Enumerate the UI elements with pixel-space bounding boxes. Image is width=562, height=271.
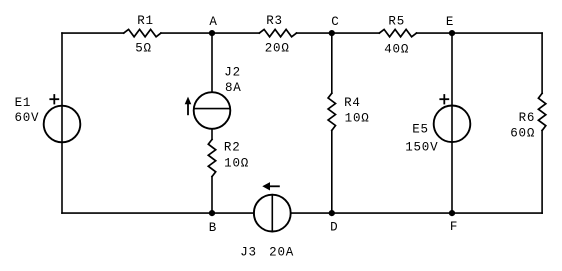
wire top rail right segment xyxy=(417,32,543,34)
node A xyxy=(209,30,215,36)
svg-text:F: F xyxy=(450,220,458,234)
svg-text:R1: R1 xyxy=(137,14,154,28)
svg-text:C: C xyxy=(331,15,339,29)
svg-text:D: D xyxy=(330,220,338,234)
svg-text:E: E xyxy=(446,15,454,29)
current source J3 xyxy=(254,195,291,232)
voltage source E1 xyxy=(44,106,81,143)
wire R2 to B xyxy=(211,177,213,214)
current source J2 xyxy=(194,92,231,129)
svg-text:10Ω: 10Ω xyxy=(345,111,370,125)
resistor R1 xyxy=(124,29,161,36)
svg-text:R6: R6 xyxy=(519,111,536,125)
svg-text:A: A xyxy=(209,15,217,29)
node F xyxy=(449,210,455,216)
svg-text:150V: 150V xyxy=(405,140,438,154)
resistor R6 xyxy=(538,93,545,130)
svg-text:10Ω: 10Ω xyxy=(224,156,249,170)
svg-text:8A: 8A xyxy=(225,81,242,95)
node D xyxy=(329,210,335,216)
svg-text:R2: R2 xyxy=(224,140,241,154)
wire left rail xyxy=(61,33,63,213)
svg-text:R3: R3 xyxy=(266,14,283,28)
wire branch A to J2 xyxy=(211,33,213,92)
wire branch C to R4 xyxy=(331,33,333,93)
arrowhead of J3 xyxy=(262,182,270,190)
svg-text:60Ω: 60Ω xyxy=(510,126,535,140)
bar of J2 xyxy=(194,108,230,110)
resistor R5 xyxy=(379,29,416,36)
svg-text:20A: 20A xyxy=(269,246,294,260)
node B xyxy=(209,210,215,216)
svg-text:40Ω: 40Ω xyxy=(384,42,409,56)
svg-text:J2: J2 xyxy=(224,66,241,80)
svg-text:60V: 60V xyxy=(14,111,39,125)
svg-text:J3: J3 xyxy=(240,246,257,260)
bar of J3 xyxy=(271,195,273,232)
wire top rail between R1 and R3 xyxy=(161,32,259,34)
wire J2 to R2 xyxy=(211,129,213,140)
svg-text:E1: E1 xyxy=(15,96,32,110)
wire top rail between R3 and R5 xyxy=(297,32,380,34)
wire right rail lower xyxy=(541,131,543,214)
resistor R4 xyxy=(328,93,335,130)
wire R4 to D xyxy=(331,130,333,213)
resistor R2 xyxy=(208,139,215,176)
svg-text:E5: E5 xyxy=(412,123,429,137)
svg-text:5Ω: 5Ω xyxy=(135,41,152,55)
svg-text:B: B xyxy=(209,221,217,235)
resistor R3 xyxy=(259,29,296,36)
node E xyxy=(449,30,455,36)
svg-text:R5: R5 xyxy=(388,15,405,29)
wire bottom rail left of J3 xyxy=(62,212,254,214)
voltage source E5 xyxy=(434,106,471,143)
wire right rail upper xyxy=(541,33,543,93)
wire branch E to F xyxy=(451,33,453,213)
plus sign of E5 xyxy=(440,95,448,104)
arrow of J3 xyxy=(269,185,279,187)
svg-text:R4: R4 xyxy=(344,96,361,110)
arrow of J2 xyxy=(187,104,189,115)
wire top rail left segment xyxy=(62,32,124,34)
node C xyxy=(329,30,335,36)
wire bottom rail right of J3 xyxy=(291,212,542,214)
svg-text:20Ω: 20Ω xyxy=(265,42,290,56)
plus sign of E1 xyxy=(50,95,58,104)
arrowhead of J2 xyxy=(185,97,192,105)
